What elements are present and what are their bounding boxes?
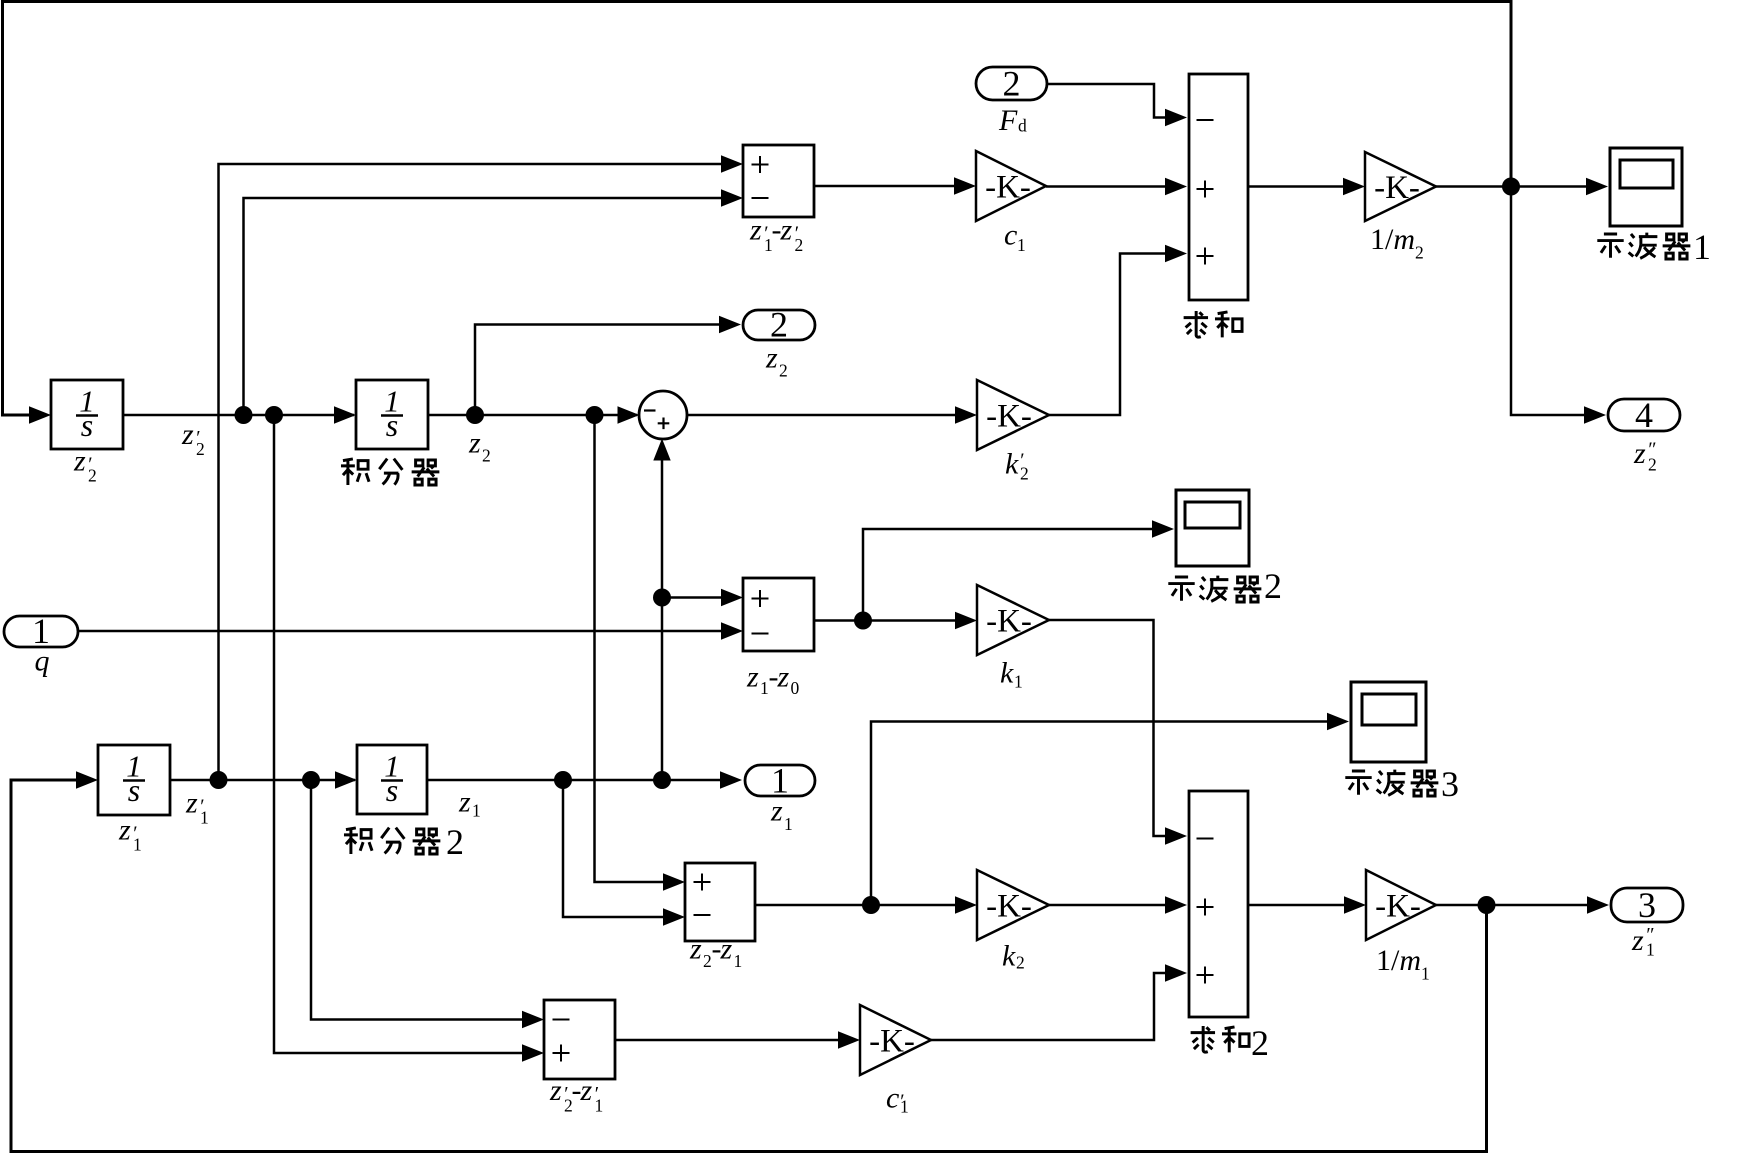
junction dot branch to scope3 [862, 896, 880, 914]
svg-text:k: k [1005, 448, 1019, 481]
svg-text:2: 2 [1648, 455, 1657, 475]
svg-text:z: z [777, 661, 790, 694]
svg-text:2: 2 [1016, 953, 1025, 973]
arrowhead into 求和 bottom plus [1165, 245, 1187, 262]
label 示波器1 under scope [1597, 227, 1711, 267]
svg-text:d: d [1018, 116, 1027, 136]
wire c1' output up to 求和2 bottom plus [931, 973, 1165, 1040]
outport 2 z2 [743, 305, 815, 345]
scope block 示波器2 [1176, 490, 1249, 566]
svg-text:z: z [118, 814, 131, 847]
signal label z1 on wire [458, 786, 481, 821]
wire 求和 output to gain 1/m2 [1248, 185, 1343, 188]
junction dot z2'' node [1502, 178, 1520, 196]
svg-text:2: 2 [1264, 566, 1282, 606]
svg-text:s: s [386, 772, 398, 808]
wire z1' output to 积分器2 [170, 779, 355, 782]
wire 积分器2 output z1 to outport 1 [427, 779, 720, 782]
svg-text:2: 2 [88, 466, 97, 486]
arrowhead into outport 2 [719, 316, 741, 333]
wire q to z1-z0 minus input [78, 630, 721, 633]
svg-text:-K-: -K- [1374, 170, 1420, 206]
svg-text:1: 1 [1017, 235, 1026, 255]
svg-text:1: 1 [900, 1097, 909, 1117]
sum block 求和 [1189, 74, 1248, 300]
label z2'' under outport 4 [1633, 437, 1657, 475]
junction dot z1' branch up to sum1 plus [210, 771, 228, 789]
svg-text:z: z [720, 933, 733, 966]
wire z1 branch right to z1-z0 plus input [662, 596, 721, 599]
arrowhead into outport 4 [1584, 406, 1606, 423]
svg-text:2: 2 [1020, 464, 1029, 484]
signal label z2' on wire [181, 418, 205, 459]
arrowhead into integrator z1' [76, 771, 98, 788]
svg-text:3: 3 [1638, 885, 1656, 925]
wire z2'-z1' output to gain c1' [615, 1039, 838, 1042]
svg-text:4: 4 [1635, 395, 1653, 435]
svg-text:z: z [458, 786, 471, 819]
wire k2 output to 求和2 middle plus [1049, 904, 1165, 907]
label z2'-z1' under sum block [549, 1074, 603, 1116]
arrowhead into gain 1/m2 [1343, 178, 1365, 195]
svg-text:c: c [886, 1082, 899, 1115]
svg-text:z: z [749, 214, 762, 247]
wire 1/m2 output to scope1 [1436, 185, 1586, 188]
wire z1 up to circle sum bottom input [661, 460, 664, 780]
gain triangle 1/m2 [1365, 152, 1436, 221]
svg-text:z: z [1633, 437, 1646, 470]
label z2-z1 under sum block [689, 933, 742, 972]
label 1/m2 under gain [1370, 223, 1424, 263]
wire c1 output to 求和 middle plus [1046, 185, 1165, 188]
arrowhead into z1-z0 plus [721, 589, 743, 606]
svg-text:2: 2 [196, 439, 205, 459]
arrowhead into scope1 [1586, 178, 1608, 195]
svg-text:z: z [689, 933, 702, 966]
svg-text:z: z [765, 342, 778, 375]
svg-text:s: s [386, 407, 398, 443]
svg-text:1: 1 [1421, 964, 1430, 984]
svg-text:c: c [1004, 219, 1017, 252]
svg-text:2: 2 [1415, 243, 1424, 263]
svg-text:1: 1 [1693, 227, 1711, 267]
label Fd under inport [998, 104, 1027, 137]
arrowhead into gain c1' [838, 1031, 860, 1048]
svg-text:z: z [770, 795, 783, 828]
label 示波器2 under scope [1168, 566, 1282, 606]
gain triangle 1/m1 [1366, 870, 1436, 940]
wire z1' down to z2'-z1' minus input [311, 780, 522, 1020]
svg-text:-K-: -K- [985, 170, 1031, 206]
wire z1-z0 output to gain k1 [814, 619, 955, 622]
junction dot z1 branch down to z2-z1 minus [554, 771, 572, 789]
gain triangle c1 [976, 151, 1046, 221]
outport 3 z1'' [1611, 885, 1683, 925]
junction dot z2' branch down to z2'-z1' plus [265, 406, 283, 424]
label z1'' under outport 3 [1631, 924, 1655, 960]
junction dot z1' branch down to z2'-z1' minus [302, 771, 320, 789]
integrator block z2' [51, 380, 123, 449]
wire z1' up to sum1 plus input [219, 164, 722, 780]
wire 1/m1 output to outport 3 [1436, 904, 1587, 907]
label c1' under gain [886, 1082, 909, 1117]
svg-text:3: 3 [1441, 764, 1459, 804]
svg-text:2: 2 [1003, 64, 1021, 104]
svg-text:z: z [185, 787, 198, 820]
arrowhead into z1-z0 minus [721, 622, 743, 639]
arrowhead into 求和2 minus [1165, 827, 1187, 844]
wire z2 up to outport 2 [475, 325, 719, 416]
arrowhead into gain k2' [955, 406, 977, 423]
svg-text:z: z [468, 427, 481, 460]
wire up and right to scope2 [863, 529, 1152, 621]
svg-text:F: F [998, 104, 1018, 137]
arrowhead into z2-z1 minus [663, 908, 685, 925]
arrowhead into z2'-z1' plus [522, 1044, 544, 1061]
wire z2' down to z2'-z1' plus input [274, 415, 522, 1053]
svg-text:z: z [181, 418, 194, 451]
svg-text:z: z [549, 1074, 562, 1107]
junction dot z2 branch to outport 2 [466, 406, 484, 424]
svg-text:-K-: -K- [1375, 889, 1421, 925]
scope block 示波器1 [1610, 148, 1682, 226]
sum block z1'-z2' [743, 145, 814, 217]
svg-text:2: 2 [770, 305, 788, 345]
arrowhead into 求和 minus [1165, 109, 1187, 126]
arrowhead into scope3 [1327, 713, 1349, 730]
label z1-z0 under sum block [746, 661, 800, 699]
wire z2-z1 output to gain k2 [755, 904, 955, 907]
circle sum block [639, 391, 687, 439]
wire 求和2 output to gain 1/m1 [1248, 904, 1344, 907]
integrator block 积分器 [356, 380, 428, 449]
svg-text:s: s [128, 772, 140, 808]
svg-text:z: z [580, 1074, 593, 1107]
wire z2' up to sum1 minus input [244, 198, 722, 415]
wire z2' integrator output to 积分器 [123, 414, 354, 417]
svg-text:1/m: 1/m [1370, 223, 1415, 256]
svg-text:z: z [780, 214, 793, 247]
svg-text:2: 2 [779, 361, 788, 381]
arrowhead into gain k2 [955, 896, 977, 913]
svg-text:z: z [73, 445, 86, 478]
arrowhead into sum1 plus [721, 155, 743, 172]
arrowhead into circle sum [618, 406, 640, 423]
junction dot branch to scope2 [854, 612, 872, 630]
label z1 under outport 1 [770, 795, 793, 835]
label 1/m1 under gain [1376, 944, 1430, 984]
inport 1 q [4, 611, 78, 651]
integrator block 积分器2 [357, 745, 427, 814]
inport 2 Fd [976, 64, 1047, 104]
arrowhead into outport 3 [1587, 896, 1609, 913]
svg-text:1: 1 [784, 814, 793, 834]
signal label z2 on wire [468, 427, 491, 466]
label 求和 under sum block [1184, 311, 1242, 337]
arrowhead into z2'-z1' minus [522, 1011, 544, 1028]
arrowhead into z2-z1 plus [663, 873, 685, 890]
svg-text:z: z [746, 661, 759, 694]
sum block z2-z1 [685, 863, 755, 941]
svg-text:1/m: 1/m [1376, 944, 1421, 977]
svg-text:k: k [1000, 657, 1014, 690]
label 示波器3 under scope [1345, 764, 1459, 804]
junction dot z1'' node [1478, 896, 1496, 914]
wire sum1 output to gain c1 [814, 185, 954, 188]
svg-text:-K-: -K- [869, 1024, 915, 1060]
sum block z1-z0 [743, 578, 814, 651]
wire z2'' down to outport 4 [1511, 187, 1584, 416]
svg-text:k: k [1002, 940, 1016, 973]
label z1'-z2' under sum block [749, 214, 803, 256]
arrowhead into sum1 minus [721, 189, 743, 206]
wire z1 down to z2-z1 minus input [563, 780, 663, 917]
wire circle sum output to gain k2' [687, 414, 956, 417]
label c1 under gain [1004, 219, 1026, 256]
arrowhead into 求和 middle plus [1165, 178, 1187, 195]
junction dot z1 branch up to circle sum [653, 771, 671, 789]
svg-text:1: 1 [133, 835, 142, 855]
arrowhead into gain 1/m1 [1344, 896, 1366, 913]
junction dot z2 branch down to z2-z1 plus [586, 406, 604, 424]
svg-text:2: 2 [1251, 1023, 1269, 1063]
gain triangle k2' [977, 380, 1049, 450]
scope block 示波器3 [1351, 682, 1426, 762]
arrowhead up into circle sum bottom [653, 439, 670, 461]
svg-text:1: 1 [472, 801, 481, 821]
junction dot z1 branch to z1-z0 plus [653, 589, 671, 607]
label k2 under gain [1002, 940, 1025, 973]
svg-text:1: 1 [734, 951, 743, 971]
svg-text:2: 2 [482, 446, 491, 466]
arrowhead into integrator z2' [29, 406, 51, 423]
svg-text:q: q [35, 645, 50, 678]
svg-text:-K-: -K- [986, 604, 1032, 640]
label 积分器2 under block [344, 822, 464, 862]
label z2' under block [73, 445, 97, 486]
sum block z2'-z1' [544, 1000, 615, 1079]
label z2 under outport 2 [765, 342, 788, 381]
label k1 under gain [1000, 657, 1023, 692]
wire z2 down to z2-z1 plus input [595, 415, 664, 882]
svg-text:s: s [81, 407, 93, 443]
svg-text:1: 1 [595, 1096, 604, 1116]
arrowhead into scope2 [1152, 520, 1174, 537]
gain triangle c1' [860, 1005, 931, 1075]
gain triangle k2 [977, 870, 1049, 940]
arrowhead into integrator 积分器 [334, 406, 356, 423]
svg-text:1: 1 [760, 678, 769, 698]
gain triangle k1 [977, 585, 1049, 655]
svg-text:2: 2 [795, 235, 804, 255]
wire 积分器 output z2 to circle sum [428, 414, 637, 417]
arrowhead into gain k1 [955, 612, 977, 629]
signal label z1' on wire [185, 787, 209, 828]
integrator block z1' [98, 745, 170, 815]
wire top feedback loop of z2'' [3, 2, 1512, 416]
svg-text:2: 2 [703, 951, 712, 971]
label 求和2 under sum block [1191, 1023, 1269, 1063]
svg-text:2: 2 [446, 822, 464, 862]
svg-text:0: 0 [791, 678, 800, 698]
label 积分器 under block [341, 459, 439, 485]
wire up and right to scope3 [871, 722, 1327, 906]
svg-text:-K-: -K- [986, 889, 1032, 925]
arrowhead into outport 1 [720, 771, 742, 788]
outport 4 z2'' [1608, 395, 1680, 435]
arrowhead into 求和2 middle plus [1165, 896, 1187, 913]
outport 1 z1 [745, 761, 815, 801]
svg-text:1: 1 [1646, 940, 1655, 960]
sum block 求和2 [1189, 791, 1248, 1017]
svg-text:-K-: -K- [986, 399, 1032, 435]
wire Fd to 求和 minus input [1047, 84, 1165, 118]
wire bottom feedback loop of z1'' [11, 780, 1487, 1152]
arrowhead into 求和2 bottom plus [1165, 964, 1187, 981]
svg-text:1: 1 [1014, 672, 1023, 692]
label k2' under gain [1005, 448, 1029, 484]
label z1' under block [118, 814, 142, 855]
svg-text:z: z [1631, 924, 1644, 957]
junction dot z2' branch to sum1 minus [235, 406, 253, 424]
wire k1 output down to 求和2 minus [1049, 620, 1165, 836]
arrowhead into integrator 积分器2 [335, 771, 357, 788]
wire k2' output up to 求和 bottom plus [1049, 254, 1165, 416]
svg-text:1: 1 [200, 808, 209, 828]
arrowhead into gain c1 [954, 177, 976, 194]
